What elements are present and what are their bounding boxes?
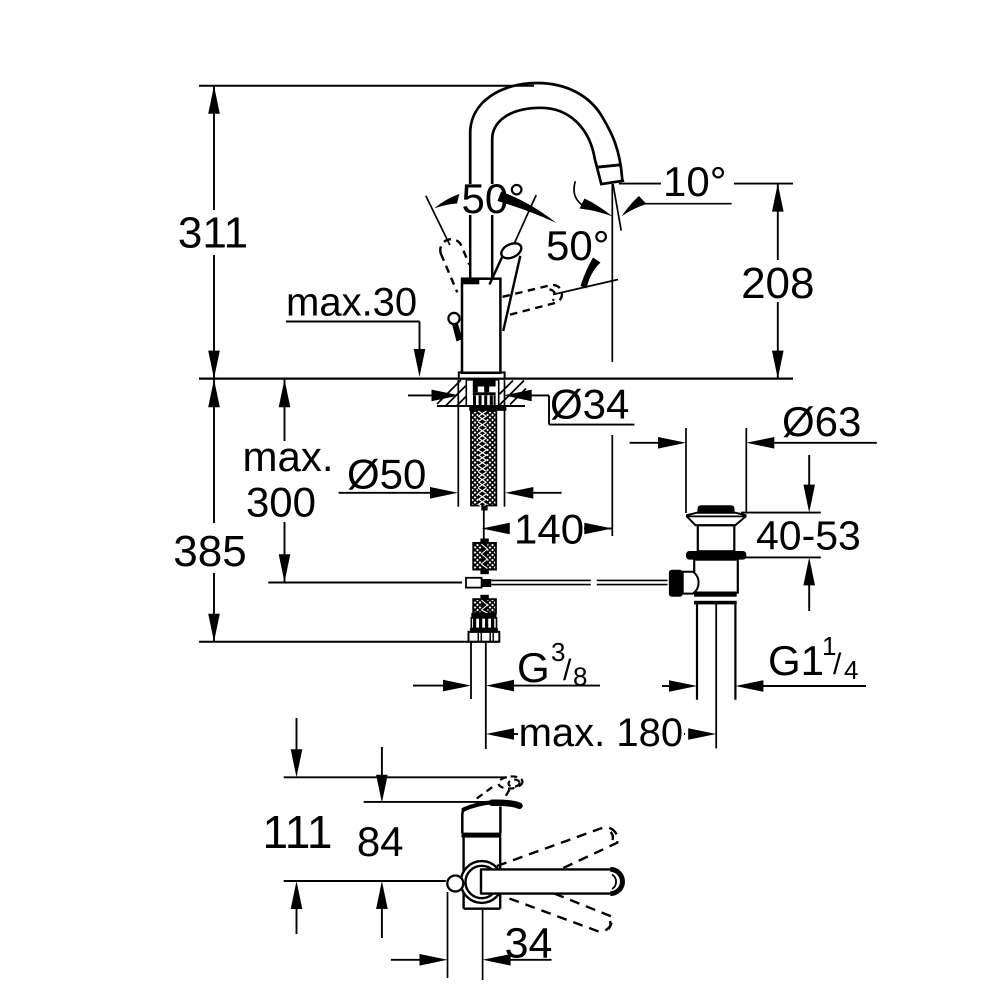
angle arrowhead 50a left [434, 194, 459, 208]
wire max.300 bottom reference / rod line left part [268, 582, 462, 584]
faucet body top black band [461, 278, 479, 285]
dashed lever left [440, 239, 469, 292]
angle arrowhead at slanted line [622, 196, 647, 216]
drain seal ring black [686, 551, 746, 560]
wire mounting surface line [199, 378, 793, 380]
wire counter underside line [437, 405, 525, 407]
svg-text:40-53: 40-53 [756, 513, 861, 559]
angle arrow tail line at 10deg [644, 203, 732, 205]
wire 208 top reference line right of 10deg [734, 183, 793, 185]
svg-text:4: 4 [844, 655, 858, 685]
dimension 40-53 [738, 455, 821, 611]
braided hose lower segment [473, 599, 496, 613]
front view dashed lever upper [497, 827, 618, 892]
front view spout band [464, 802, 493, 809]
front view: line 84 top [364, 801, 502, 803]
washer under counter [469, 407, 506, 411]
pop-up knob circle on body [448, 313, 459, 324]
dashed lever right [503, 285, 562, 315]
svg-text:/: / [563, 654, 572, 687]
counter cross-section hatch right [488, 381, 526, 406]
drain body lower [694, 560, 738, 593]
faucet mounting shank with locknut [466, 380, 498, 406]
pop-up rod end fitting at faucet axis [466, 578, 482, 588]
front view faucet body upper [462, 807, 500, 834]
pop-up horizontal rod [491, 580, 667, 584]
front view lever capsule [481, 869, 622, 893]
svg-text:140: 140 [514, 506, 584, 553]
front view base [464, 838, 501, 909]
angle arrowhead 50b left [581, 258, 601, 289]
faucet escutcheon [459, 372, 505, 378]
svg-text:8: 8 [573, 662, 587, 692]
svg-text:311: 311 [178, 209, 248, 258]
rod clamp black block [669, 570, 683, 597]
leader max.30 [286, 322, 425, 378]
dimension 111 arrows [291, 718, 303, 934]
front view: line 111 top [284, 776, 507, 778]
dimension 208 vertical line [772, 184, 784, 379]
svg-text:max. 180: max. 180 [519, 711, 684, 755]
svg-text:/: / [833, 648, 842, 681]
drain joint bands [694, 593, 737, 597]
hose nut with vertical ridges [470, 613, 498, 632]
angle line solid lever axis extended [515, 195, 537, 243]
swivel arc near spout [574, 181, 586, 207]
dimension G1-1/4 arrows [662, 680, 866, 692]
front view dashed spout neck lines [477, 787, 510, 799]
svg-text:Ø63: Ø63 [782, 398, 861, 445]
extension line vertical from spout tip [611, 184, 613, 362]
front view hub outer circle [461, 861, 503, 903]
hose connector nub 3 [480, 570, 488, 575]
dimension max.180 [486, 728, 716, 740]
angle arrowhead 50a right [498, 192, 557, 223]
drain body upper [698, 525, 735, 551]
drain plug flange [687, 513, 746, 526]
faucet body [462, 279, 500, 373]
spout aerator joint line [597, 165, 621, 167]
svg-text:50°: 50° [546, 222, 610, 269]
hose connector nub 4 [480, 595, 488, 599]
svg-text:111: 111 [263, 806, 333, 858]
dimension diameter-34 arrows and leader [408, 390, 634, 425]
svg-text:G: G [517, 644, 550, 691]
svg-text:G1: G1 [768, 637, 824, 684]
dimension G3/8 arrows [413, 680, 600, 692]
lever solid cylinder sides [490, 255, 503, 284]
svg-text:50°: 50° [462, 175, 526, 222]
dimension 311 vertical line [208, 86, 220, 642]
front view hub inner circle [466, 866, 498, 898]
front view joint band [462, 833, 502, 838]
front view spout tip dashed oval [498, 775, 523, 789]
dimension 140 leader [482, 523, 613, 535]
extension line slanted 10deg from spout tip [613, 184, 621, 231]
svg-text:208: 208 [741, 259, 814, 308]
front view dashed lever lower [504, 875, 612, 932]
svg-text:Ø34: Ø34 [550, 381, 629, 428]
lever knob ellipse [499, 240, 524, 261]
wire top reference line [199, 85, 534, 87]
angle line left lever axis [426, 196, 450, 245]
dimension 84 arrows [376, 747, 388, 938]
counter cross-section hatch left [437, 380, 482, 406]
drain: diameter-63 extension lines [685, 428, 687, 513]
dimension max.300 vertical line [279, 379, 291, 582]
angle line right lever axis extended [553, 280, 618, 295]
front view: lever axis line [284, 880, 446, 882]
pop-up rod clamp black square [482, 579, 492, 587]
pop-up knob stem black [452, 322, 463, 342]
max180 right extension line / drain axis [715, 604, 717, 748]
svg-text:84: 84 [357, 818, 404, 865]
braided hose middle segment [473, 543, 496, 570]
dimension diameter-50 arrows [339, 487, 562, 499]
wire 10deg leader line left of text [619, 183, 661, 185]
svg-text:385: 385 [173, 527, 246, 576]
text G1 1/4 [768, 631, 858, 685]
extension lines diameter 50 [457, 380, 459, 507]
spout curve [470, 83, 623, 184]
text G3/8 [517, 637, 587, 692]
rod clamp white nose [683, 572, 699, 594]
svg-text:max.30: max.30 [286, 281, 417, 325]
front view pop-up knob [447, 876, 463, 892]
hose connector nub 2 [480, 539, 488, 543]
wire bottom hose reference line [199, 641, 499, 643]
svg-text:max.: max. [242, 433, 333, 480]
drain tailpiece [696, 604, 698, 699]
svg-text:Ø50: Ø50 [347, 451, 426, 498]
svg-text:300: 300 [246, 479, 316, 526]
nipple thread line right / max180 left extension [485, 642, 487, 749]
angle arrowhead at vertical line [580, 199, 613, 217]
dimension diameter-63 arrows [630, 437, 877, 449]
hose end fitting G3/8 [469, 632, 500, 642]
braided supply hose upper [471, 411, 496, 510]
dimension 34 [391, 892, 552, 980]
drain pop-up cap [698, 505, 735, 512]
svg-text:10°: 10° [663, 158, 727, 205]
nipple thread line left [470, 642, 472, 699]
spout riser segments [470, 215, 492, 278]
hose connector nub [481, 506, 487, 511]
svg-text:34: 34 [505, 920, 553, 968]
hose axis line [483, 511, 485, 539]
